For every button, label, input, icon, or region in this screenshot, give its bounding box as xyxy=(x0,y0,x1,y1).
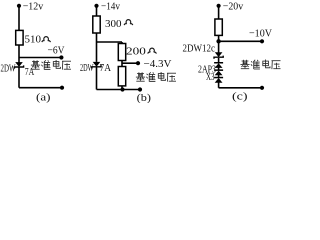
svg-text:7A: 7A xyxy=(25,67,35,78)
svg-text:510: 510 xyxy=(25,34,42,46)
svg-text:−10V: −10V xyxy=(249,27,272,39)
svg-text:−14v: −14v xyxy=(101,1,120,13)
svg-text:−12v: −12v xyxy=(23,1,44,13)
svg-text:(c): (c) xyxy=(232,90,248,102)
svg-text:200: 200 xyxy=(126,45,146,57)
svg-text:2DW12c: 2DW12c xyxy=(183,43,216,54)
svg-text:−20v: −20v xyxy=(223,1,244,13)
svg-text:(a): (a) xyxy=(36,92,51,103)
svg-text:−4.3V: −4.3V xyxy=(144,58,172,70)
svg-text:−6V: −6V xyxy=(48,45,65,57)
svg-text:2DW: 2DW xyxy=(1,64,16,75)
svg-text:2DW: 2DW xyxy=(80,63,94,74)
svg-text:7A: 7A xyxy=(100,63,112,74)
svg-text:300: 300 xyxy=(105,18,122,30)
svg-text:(b): (b) xyxy=(137,92,152,103)
svg-text:X3: X3 xyxy=(206,72,215,83)
